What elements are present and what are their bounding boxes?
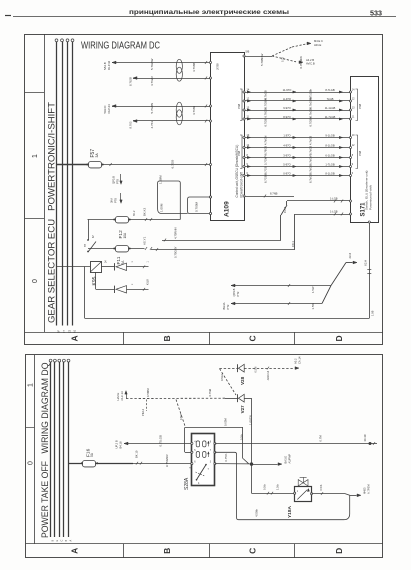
svg-text:A4.2 B: A4.2 B bbox=[306, 58, 314, 62]
svg-text:BF: BF bbox=[58, 329, 61, 333]
svg-text:PK2.2: PK2.2 bbox=[141, 408, 145, 416]
svg-text:1-7LGB: 1-7LGB bbox=[325, 162, 334, 166]
svg-text:1-LGB: 1-LGB bbox=[330, 210, 338, 214]
svg-text:0-97O: 0-97O bbox=[283, 171, 290, 175]
svg-text:C: C bbox=[247, 335, 257, 341]
svg-text:CLC.13: CLC.13 bbox=[120, 391, 124, 401]
svg-text:AS.Y1: AS.Y1 bbox=[143, 236, 147, 245]
svg-text:1: 1 bbox=[32, 154, 39, 158]
svg-text:PT2: PT2 bbox=[236, 291, 240, 296]
svg-text:0.75: 0.75 bbox=[282, 57, 285, 62]
svg-text:1.00TN: 1.00TN bbox=[249, 415, 253, 425]
svg-text:H-97O: H-97O bbox=[283, 97, 291, 101]
svg-text:6.7bGNY: 6.7bGNY bbox=[308, 154, 312, 165]
svg-text:1-LGB: 1-LGB bbox=[330, 197, 338, 201]
svg-text:A: A bbox=[69, 335, 79, 341]
svg-text:0.700MW: 0.700MW bbox=[299, 56, 303, 69]
svg-text:8-7LGB: 8-7LGB bbox=[325, 88, 334, 92]
svg-text:4-97O: 4-97O bbox=[283, 143, 290, 147]
svg-text:0.7M: 0.7M bbox=[319, 435, 323, 442]
svg-text:0.5M: 0.5M bbox=[253, 367, 257, 373]
svg-text:0.5th: 0.5th bbox=[262, 484, 266, 490]
svg-text:6.7GBW: 6.7GBW bbox=[263, 98, 267, 109]
svg-text:5.7GBN: 5.7GBN bbox=[150, 103, 154, 114]
svg-text:8-97O: 8-97O bbox=[283, 115, 290, 119]
svg-text:AV/C.B: AV/C.B bbox=[306, 61, 315, 65]
svg-text:0.05M: 0.05M bbox=[224, 418, 228, 426]
svg-text:5.7GWY: 5.7GWY bbox=[263, 155, 267, 165]
svg-text:9.75GNR: 9.75GNR bbox=[165, 454, 169, 467]
svg-text:1.2BM: 1.2BM bbox=[158, 175, 162, 184]
svg-text:8.762B: 8.762B bbox=[128, 77, 132, 86]
svg-text:Powertronic/I-shift: Powertronic/I-shift bbox=[368, 185, 372, 210]
svg-text:POWER TAKE OFF: POWER TAKE OFF bbox=[40, 460, 50, 538]
svg-text:S28A: S28A bbox=[184, 477, 190, 490]
svg-text:J/7B8: J/7B8 bbox=[215, 63, 219, 70]
svg-text:9-97O: 9-97O bbox=[283, 106, 290, 110]
svg-text:6.7bGB: 6.7bGB bbox=[308, 174, 312, 183]
svg-text:0.700M: 0.700M bbox=[195, 201, 199, 212]
svg-text:0.7bGB: 0.7bGB bbox=[308, 108, 312, 117]
svg-text:0.75LGB: 0.75LGB bbox=[158, 435, 162, 446]
svg-text:A.7PEM: A.7PEM bbox=[366, 484, 370, 494]
svg-text:1.5W: 1.5W bbox=[311, 286, 315, 293]
svg-text:PT8: PT8 bbox=[116, 179, 120, 184]
svg-text:QP3.B: QP3.B bbox=[112, 176, 116, 184]
svg-text:533: 533 bbox=[370, 8, 382, 17]
svg-text:D: D bbox=[334, 548, 344, 554]
svg-text:PT2: PT2 bbox=[226, 304, 230, 309]
svg-text:C: C bbox=[247, 548, 257, 554]
svg-text:0.5th: 0.5th bbox=[239, 434, 243, 440]
svg-text:V27: V27 bbox=[240, 405, 245, 414]
svg-text:0: 0 bbox=[32, 279, 39, 283]
svg-text:WIRING DIAGRAM DQ: WIRING DIAGRAM DQ bbox=[40, 362, 50, 453]
svg-text:6.7bGB: 6.7bGB bbox=[263, 90, 267, 99]
svg-text:K.U8: K.U8 bbox=[146, 279, 150, 285]
svg-text:BK.10: BK.10 bbox=[134, 450, 138, 458]
svg-text:5.70BNW: 5.70BNW bbox=[260, 53, 264, 66]
svg-text:7LGB: 7LGB bbox=[327, 97, 334, 101]
svg-text:B4.18: B4.18 bbox=[119, 441, 123, 449]
svg-text:C: C bbox=[60, 540, 63, 542]
svg-text:11-1LGB: 11-1LGB bbox=[325, 106, 336, 110]
svg-text:6.7bGBW: 6.7bGBW bbox=[308, 96, 312, 108]
svg-text:BH3A: BH3A bbox=[222, 302, 226, 309]
svg-text:6.7GB: 6.7GB bbox=[263, 166, 267, 174]
svg-text:A01.E: A01.E bbox=[314, 43, 322, 47]
svg-text:0.75GNY: 0.75GNY bbox=[173, 246, 177, 258]
svg-text:8-1LGB: 8-1LGB bbox=[325, 171, 334, 175]
svg-text:0: 0 bbox=[28, 461, 35, 465]
svg-text:QP3.B: QP3.B bbox=[232, 288, 236, 296]
svg-text:X2.A: X2.A bbox=[364, 260, 368, 266]
svg-text:PT8: PT8 bbox=[114, 198, 118, 203]
svg-text:11-97O: 11-97O bbox=[283, 88, 292, 92]
svg-text:M4.E C: M4.E C bbox=[314, 39, 323, 43]
svg-text:0.5MM: 0.5MM bbox=[146, 388, 150, 397]
svg-text:4.7689: 4.7689 bbox=[192, 105, 196, 115]
svg-text:5.7GBW: 5.7GBW bbox=[150, 58, 154, 70]
svg-text:3A: 3A bbox=[95, 153, 99, 158]
svg-text:P98: P98 bbox=[358, 150, 362, 155]
svg-text:8.7NB: 8.7NB bbox=[270, 191, 278, 195]
svg-text:A: A bbox=[70, 548, 80, 554]
svg-text:2C.6: 2C.6 bbox=[348, 252, 352, 258]
svg-text:8.763: 8.763 bbox=[128, 121, 132, 128]
svg-text:A0.2: A0.2 bbox=[294, 358, 298, 364]
svg-text:P98: P98 bbox=[358, 103, 362, 108]
svg-text:D: D bbox=[334, 335, 344, 341]
svg-text:3-97O: 3-97O bbox=[283, 153, 290, 157]
svg-text:1: 1 bbox=[28, 383, 35, 387]
svg-text:11-7LGB: 11-7LGB bbox=[325, 115, 336, 119]
svg-text:6.76GB: 6.76GB bbox=[263, 108, 267, 117]
svg-text:M453: M453 bbox=[362, 487, 366, 494]
svg-text:OLP.42: OLP.42 bbox=[107, 60, 111, 70]
svg-text:1.5th: 1.5th bbox=[275, 484, 279, 490]
svg-text:1.0B: 1.0B bbox=[371, 310, 375, 316]
svg-text:0.5th: 0.5th bbox=[319, 484, 323, 490]
svg-text:4.762R: 4.762R bbox=[150, 75, 154, 86]
svg-text:BT: BT bbox=[84, 243, 87, 247]
svg-text:BK.K3: BK.K3 bbox=[143, 207, 147, 216]
svg-text:WIRING DIAGRAM DC: WIRING DIAGRAM DC bbox=[81, 41, 160, 52]
svg-text:CA.14: CA.14 bbox=[298, 356, 302, 364]
svg-text:P98: P98 bbox=[237, 103, 241, 108]
svg-text:3KA: 3KA bbox=[110, 198, 114, 203]
svg-text:V28: V28 bbox=[240, 376, 245, 385]
svg-text:6.7GB: 6.7GB bbox=[263, 119, 267, 127]
svg-text:1.97O: 1.97O bbox=[283, 133, 290, 137]
svg-text:OLP.44: OLP.44 bbox=[107, 104, 111, 114]
svg-text:9-1LGB: 9-1LGB bbox=[325, 133, 334, 137]
svg-text:6.7bGB: 6.7bGB bbox=[308, 165, 312, 174]
svg-text:30.3C: 30.3C bbox=[363, 434, 367, 441]
svg-text:6-1LGB: 6-1LGB bbox=[325, 153, 334, 157]
svg-text:6.76GB: 6.76GB bbox=[263, 146, 267, 155]
svg-text:B: B bbox=[162, 335, 172, 341]
svg-text:6.7GBN: 6.7GBN bbox=[308, 117, 312, 127]
svg-text:10A: 10A bbox=[123, 232, 127, 239]
svg-text:4.7bGB: 4.7bGB bbox=[308, 136, 312, 145]
svg-text:5-97O: 5-97O bbox=[283, 162, 290, 166]
svg-text:BK.2: BK.2 bbox=[133, 210, 136, 216]
svg-text:4.7688: 4.7688 bbox=[192, 62, 196, 72]
svg-text:принципиальные электрические с: принципиальные электрические схемы bbox=[129, 9, 289, 16]
svg-text:JH10.14: JH10.14 bbox=[266, 370, 270, 380]
svg-text:0.7bGB: 0.7bGB bbox=[308, 146, 312, 155]
svg-text:A1/PNP: A1/PNP bbox=[288, 454, 292, 464]
svg-text:0.5M: 0.5M bbox=[180, 414, 183, 420]
svg-text:0.5Gn: 0.5Gn bbox=[220, 373, 224, 381]
svg-text:B: B bbox=[162, 548, 172, 554]
svg-text:C3.A: C3.A bbox=[283, 207, 287, 213]
svg-text:4.50th: 4.50th bbox=[254, 509, 258, 517]
svg-text:4.763: 4.763 bbox=[150, 121, 154, 129]
svg-text:0.75M: 0.75M bbox=[208, 388, 212, 396]
svg-text:4.75RNN: 4.75RNN bbox=[173, 227, 177, 239]
svg-text:6.7GB: 6.7GB bbox=[170, 160, 174, 169]
svg-text:1.00M: 1.00M bbox=[159, 203, 163, 212]
svg-text:8-1LGB: 8-1LGB bbox=[325, 143, 334, 147]
svg-text:0.75th: 0.75th bbox=[224, 453, 228, 461]
svg-text:BA3.E: BA3.E bbox=[284, 456, 288, 464]
svg-text:C8.1: C8.1 bbox=[291, 241, 295, 247]
svg-text:5/B: 5/B bbox=[246, 51, 250, 54]
svg-text:HA2.E: HA2.E bbox=[116, 393, 120, 401]
svg-text:4.7bGN: 4.7bGN bbox=[263, 136, 267, 145]
svg-text:A109: A109 bbox=[223, 201, 230, 217]
svg-text:6.7GB8: 6.7GB8 bbox=[263, 173, 267, 183]
svg-text:UP.2 B: UP.2 B bbox=[115, 440, 119, 448]
svg-text:Y18A: Y18A bbox=[287, 505, 293, 518]
svg-text:P98: P98 bbox=[237, 150, 241, 155]
svg-text:1.5W: 1.5W bbox=[311, 303, 315, 310]
